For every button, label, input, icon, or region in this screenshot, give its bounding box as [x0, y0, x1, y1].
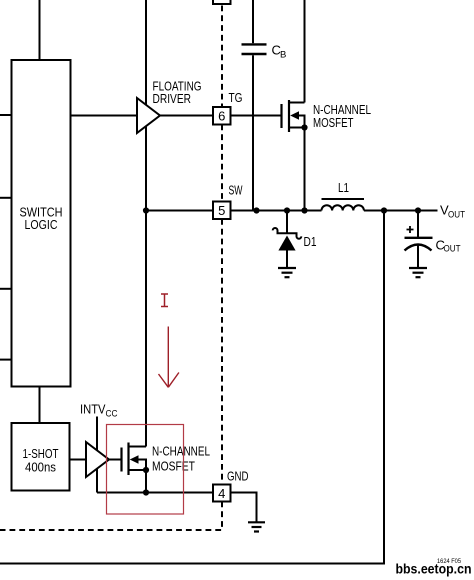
node SW junction dot left — [143, 207, 149, 213]
svg-text:OUT: OUT — [444, 244, 461, 255]
wire pin4 to ground — [231, 493, 257, 522]
svg-text:400ns: 400ns — [25, 461, 56, 475]
svg-text:N-CHANNEL: N-CHANNEL — [313, 103, 371, 117]
ground for D1 — [278, 268, 296, 277]
wire stub left 4 — [0, 359, 12, 361]
wire SW net from top down to bottom mosfet drain — [145, 0, 147, 447]
capacitor CB — [242, 43, 287, 61]
svg-text:5: 5 — [218, 203, 225, 218]
wire top feed to switch logic — [39, 0, 41, 60]
wire stub left 1 — [0, 114, 12, 116]
wire feedback from VOUT down and left along bottom — [0, 211, 384, 564]
svg-text:INTV: INTV — [80, 403, 106, 417]
ground for pin 4 — [248, 522, 265, 531]
wire driver bottom rail to gnd — [96, 468, 98, 492]
wire stub left 2 — [0, 197, 12, 199]
wire CB bottom down to SW rail — [252, 55, 254, 210]
wire top mosfet drain from top — [304, 0, 306, 103]
svg-text:N-CHANNEL: N-CHANNEL — [152, 445, 210, 459]
wire inductor to VOUT — [364, 210, 438, 212]
node D1 junction — [284, 207, 290, 213]
svg-text:SW: SW — [229, 184, 243, 198]
op-amp bottom gate driver triangle — [86, 442, 109, 477]
svg-text:6: 6 — [218, 109, 225, 124]
wire INTVCC to driver top — [96, 417, 98, 451]
node mosfet source junction — [301, 207, 307, 213]
svg-text:OUT: OUT — [448, 210, 465, 221]
wire boost net through CB — [252, 0, 254, 43]
wire 1-shot to driver — [70, 459, 87, 461]
svg-text:1-SHOT: 1-SHOT — [23, 447, 59, 461]
diode D1 schottky — [273, 211, 317, 269]
node gnd junction dot — [143, 489, 149, 495]
wire gnd rail to pin 4 — [97, 492, 213, 494]
inductor L1 — [322, 181, 365, 211]
node feedback junction — [381, 207, 387, 213]
pin 4 GND — [213, 485, 231, 502]
ground for COUT — [409, 268, 427, 277]
svg-text:B: B — [280, 50, 286, 61]
wire pin6 to gate — [231, 115, 282, 117]
transistor Q1 top n-channel mosfet — [282, 100, 308, 132]
pin top partial box — [213, 0, 231, 4]
wire pin5 to inductor — [231, 210, 322, 212]
wire top mosfet source to SW rail — [304, 128, 306, 211]
wire driver output to pin 6 — [160, 115, 213, 117]
capacitor COUT — [405, 211, 461, 269]
svg-text:LOGIC: LOGIC — [25, 218, 58, 232]
svg-text:D1: D1 — [304, 235, 317, 249]
pin 5 SW — [213, 202, 231, 220]
switch logic block — [12, 60, 71, 387]
svg-text:MOSFET: MOSFET — [313, 116, 354, 130]
red current arrow — [159, 327, 179, 388]
svg-text:bbs.eetop.cn: bbs.eetop.cn — [396, 561, 472, 577]
pin 6 TG — [213, 107, 231, 125]
svg-text:GND: GND — [227, 470, 249, 484]
svg-text:L1: L1 — [338, 181, 349, 195]
svg-text:CC: CC — [106, 409, 118, 420]
svg-text:DRIVER: DRIVER — [153, 92, 192, 106]
wire SW rail to pin5 — [146, 210, 213, 212]
wire stub left 3 — [0, 288, 12, 290]
transistor Q2 bottom n-channel mosfet — [109, 443, 149, 493]
svg-text:MOSFET: MOSFET — [152, 460, 195, 474]
wire switch logic to floating driver — [71, 115, 138, 117]
IC boundary dashed — [0, 6, 222, 531]
1-shot block — [12, 423, 70, 491]
node CB junction — [253, 207, 259, 213]
svg-text:TG: TG — [229, 91, 243, 105]
wire switch logic to 1-shot — [39, 387, 41, 424]
node COUT junction — [415, 207, 421, 213]
node current label I (red) — [161, 294, 168, 307]
op-amp floating driver triangle — [137, 98, 160, 133]
red highlight box — [107, 425, 184, 515]
svg-text:4: 4 — [218, 486, 225, 501]
